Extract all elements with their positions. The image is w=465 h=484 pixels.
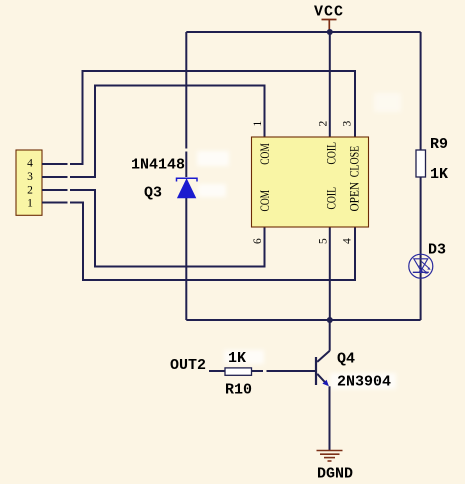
svg-text:CLOSE: CLOSE (347, 146, 362, 177)
wire connector pin 4 to relay pin 3 (42, 71, 355, 164)
connector J (4 pins) (16, 150, 42, 215)
LED D3 (409, 254, 433, 278)
svg-text:1N4148: 1N4148 (131, 157, 185, 174)
svg-text:2: 2 (27, 184, 33, 196)
wire connector pin 3 to relay pin 1 (42, 86, 265, 178)
ground symbol DGND (317, 451, 343, 462)
wire emitter to ground (329, 386, 331, 450)
svg-text:COIL: COIL (324, 142, 339, 165)
white patch right of Q3 (198, 184, 226, 197)
wire VCC rail to R9 (420, 32, 422, 150)
resistor R9 (416, 150, 426, 177)
relay U (body) (252, 137, 369, 227)
svg-text:VCC: VCC (314, 4, 344, 21)
transistor Q4 (316, 351, 330, 387)
svg-text:R10: R10 (225, 382, 252, 399)
svg-text:4: 4 (27, 158, 33, 170)
wire collector to bottom rail junction (329, 320, 331, 351)
svg-text:COM: COM (257, 190, 272, 212)
svg-text:OUT2: OUT2 (170, 357, 206, 374)
svg-text:4: 4 (342, 238, 354, 244)
wire R10 to Q4 base (252, 370, 317, 372)
svg-text:Q4: Q4 (337, 351, 355, 368)
wire OUT2 to R10 (209, 370, 225, 372)
svg-text:1: 1 (27, 198, 33, 210)
svg-text:6: 6 (252, 238, 264, 244)
svg-text:DGND: DGND (317, 466, 353, 483)
junction at bottom rail / relay pin 5 / collector (327, 317, 333, 323)
svg-text:2N3904: 2N3904 (337, 374, 391, 391)
svg-text:R9: R9 (430, 136, 448, 153)
white patch right of 1N4148 (197, 151, 229, 166)
white patch right of relay (374, 93, 401, 112)
svg-text:5: 5 (317, 238, 329, 244)
wire diode anode to bottom rail (185, 198, 187, 320)
wire R9 to LED D3 (420, 177, 422, 320)
white patch behind 1K (224, 350, 264, 364)
svg-text:D3: D3 (428, 242, 446, 259)
wire connector pin 2 to relay pin 6 (42, 190, 265, 267)
power symbol VCC (314, 4, 344, 31)
resistor R10 (225, 368, 252, 375)
svg-text:3: 3 (27, 171, 33, 183)
svg-text:COM: COM (257, 143, 272, 165)
wire relay pin 2 to VCC rail (329, 32, 331, 137)
svg-text:1: 1 (252, 121, 264, 127)
wire bottom rail (186, 319, 420, 321)
svg-text:1K: 1K (228, 350, 246, 367)
wire relay pin 5 to bottom rail (329, 227, 331, 320)
svg-text:Q3: Q3 (144, 185, 162, 202)
svg-text:OPEN: OPEN (347, 181, 362, 211)
svg-text:3: 3 (342, 121, 354, 127)
white patch behind 2N3904 (330, 373, 396, 389)
svg-text:2: 2 (317, 121, 329, 127)
svg-text:1K: 1K (430, 166, 448, 183)
wire VCC rail (186, 31, 420, 33)
junction at VCC rail / relay pin 2 (327, 29, 333, 35)
svg-text:COIL: COIL (324, 187, 339, 210)
diode Q3 1N4148 (177, 178, 198, 198)
wire connector pin 1 to relay pin 4 (42, 203, 355, 281)
wire VCC rail to diode cathode (185, 32, 187, 177)
